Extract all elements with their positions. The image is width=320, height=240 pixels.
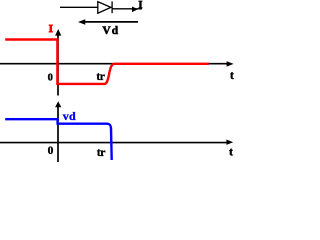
svg-text:t: t [229,145,233,159]
svg-text:vd: vd [63,109,76,123]
svg-text:Vd: Vd [102,25,119,37]
svg-text:I: I [139,0,143,11]
svg-text:tr: tr [97,145,106,159]
svg-text:0: 0 [48,73,53,84]
svg-text:I: I [49,24,53,35]
svg-text:tr: tr [96,71,104,83]
svg-text:t: t [230,70,234,82]
svg-text:0: 0 [48,145,54,157]
